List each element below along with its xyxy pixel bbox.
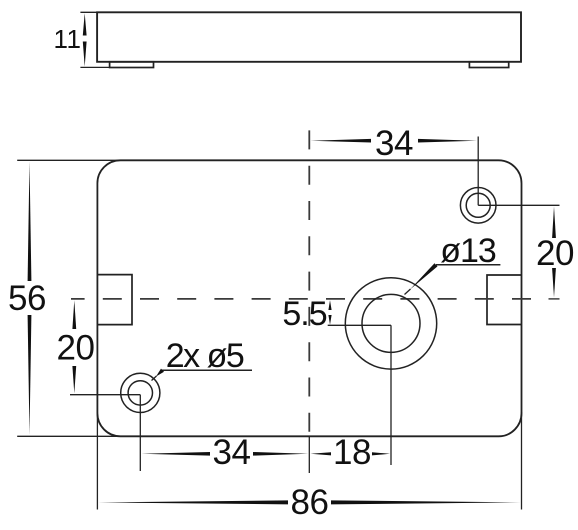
dimension 56 arrows: [28, 162, 32, 436]
dimension 11 extension lines: [80, 12, 110, 67]
right notch: [487, 275, 522, 325]
dimension 34 bottom label: [213, 433, 251, 472]
dimension 34 top arrows: [311, 139, 478, 143]
extension line 86 left: [96, 412, 98, 510]
hole center (ø13): [345, 278, 436, 369]
extension line 56 bottom: [17, 435, 121, 437]
svg-text:18: 18: [333, 433, 371, 472]
svg-text:20: 20: [536, 234, 574, 273]
extension line top-right hole horizontal: [478, 204, 559, 206]
side view outline: [97, 12, 521, 62]
dimension 56 label: [8, 279, 46, 318]
svg-text:11: 11: [54, 24, 82, 54]
dimension 20 left arrows: [72, 300, 76, 393]
extension line 56 top: [17, 159, 121, 161]
vertical dashed centerline: [308, 130, 310, 434]
left notch: [97, 275, 132, 325]
extension line bottom-left hole horizontal: [70, 394, 140, 396]
extension line top-right hole vertical: [477, 137, 479, 206]
dimension 18 label: [333, 433, 371, 472]
svg-text:86: 86: [291, 483, 329, 522]
dimension 34 bottom arrows: [142, 452, 309, 456]
dimension 86 label: [291, 483, 329, 522]
dimension 18 arrows: [311, 452, 391, 455]
svg-text:34: 34: [213, 433, 251, 472]
dimension 11 label: [54, 24, 82, 54]
leader ø13: [405, 263, 501, 294]
dimension 5.5 arrows: [328, 300, 331, 325]
extension line centerline below plate: [308, 436, 310, 473]
svg-text:20: 20: [57, 329, 95, 368]
dimension 20 right arrows: [552, 207, 556, 298]
extension line bottom-left hole vertical: [139, 395, 141, 471]
dimension 20 right label: [536, 234, 574, 273]
svg-text:34: 34: [375, 124, 413, 163]
side view right foot: [469, 62, 508, 68]
dimension 20 left label: [57, 329, 95, 368]
extension line center hole horizontal: [328, 324, 391, 326]
svg-text:ø13: ø13: [440, 232, 496, 270]
dimension 5.5 label: [282, 295, 326, 333]
svg-text:5.5: 5.5: [282, 295, 326, 333]
svg-text:2x ø5: 2x ø5: [166, 337, 244, 375]
side view left foot: [110, 62, 154, 68]
hole bottom-left (2x ø5): [121, 373, 160, 412]
plate outline (top view): [97, 160, 521, 436]
leader 2x ø5: [152, 369, 253, 381]
horizontal dashed centerline: [71, 298, 531, 300]
leader ø13 label: [440, 232, 496, 270]
extension line 86 right: [521, 412, 523, 510]
extension line center hole vertical: [390, 325, 392, 465]
leader 2x ø5 label: [166, 337, 244, 375]
dimension 34 top label: [375, 124, 413, 163]
hole top-right (2x ø5): [460, 188, 496, 224]
dimension 11 arrows: [83, 13, 87, 66]
svg-text:56: 56: [8, 279, 46, 318]
extension line 20 right bottom tick: [549, 298, 560, 300]
dimension 86 arrows: [98, 500, 521, 504]
